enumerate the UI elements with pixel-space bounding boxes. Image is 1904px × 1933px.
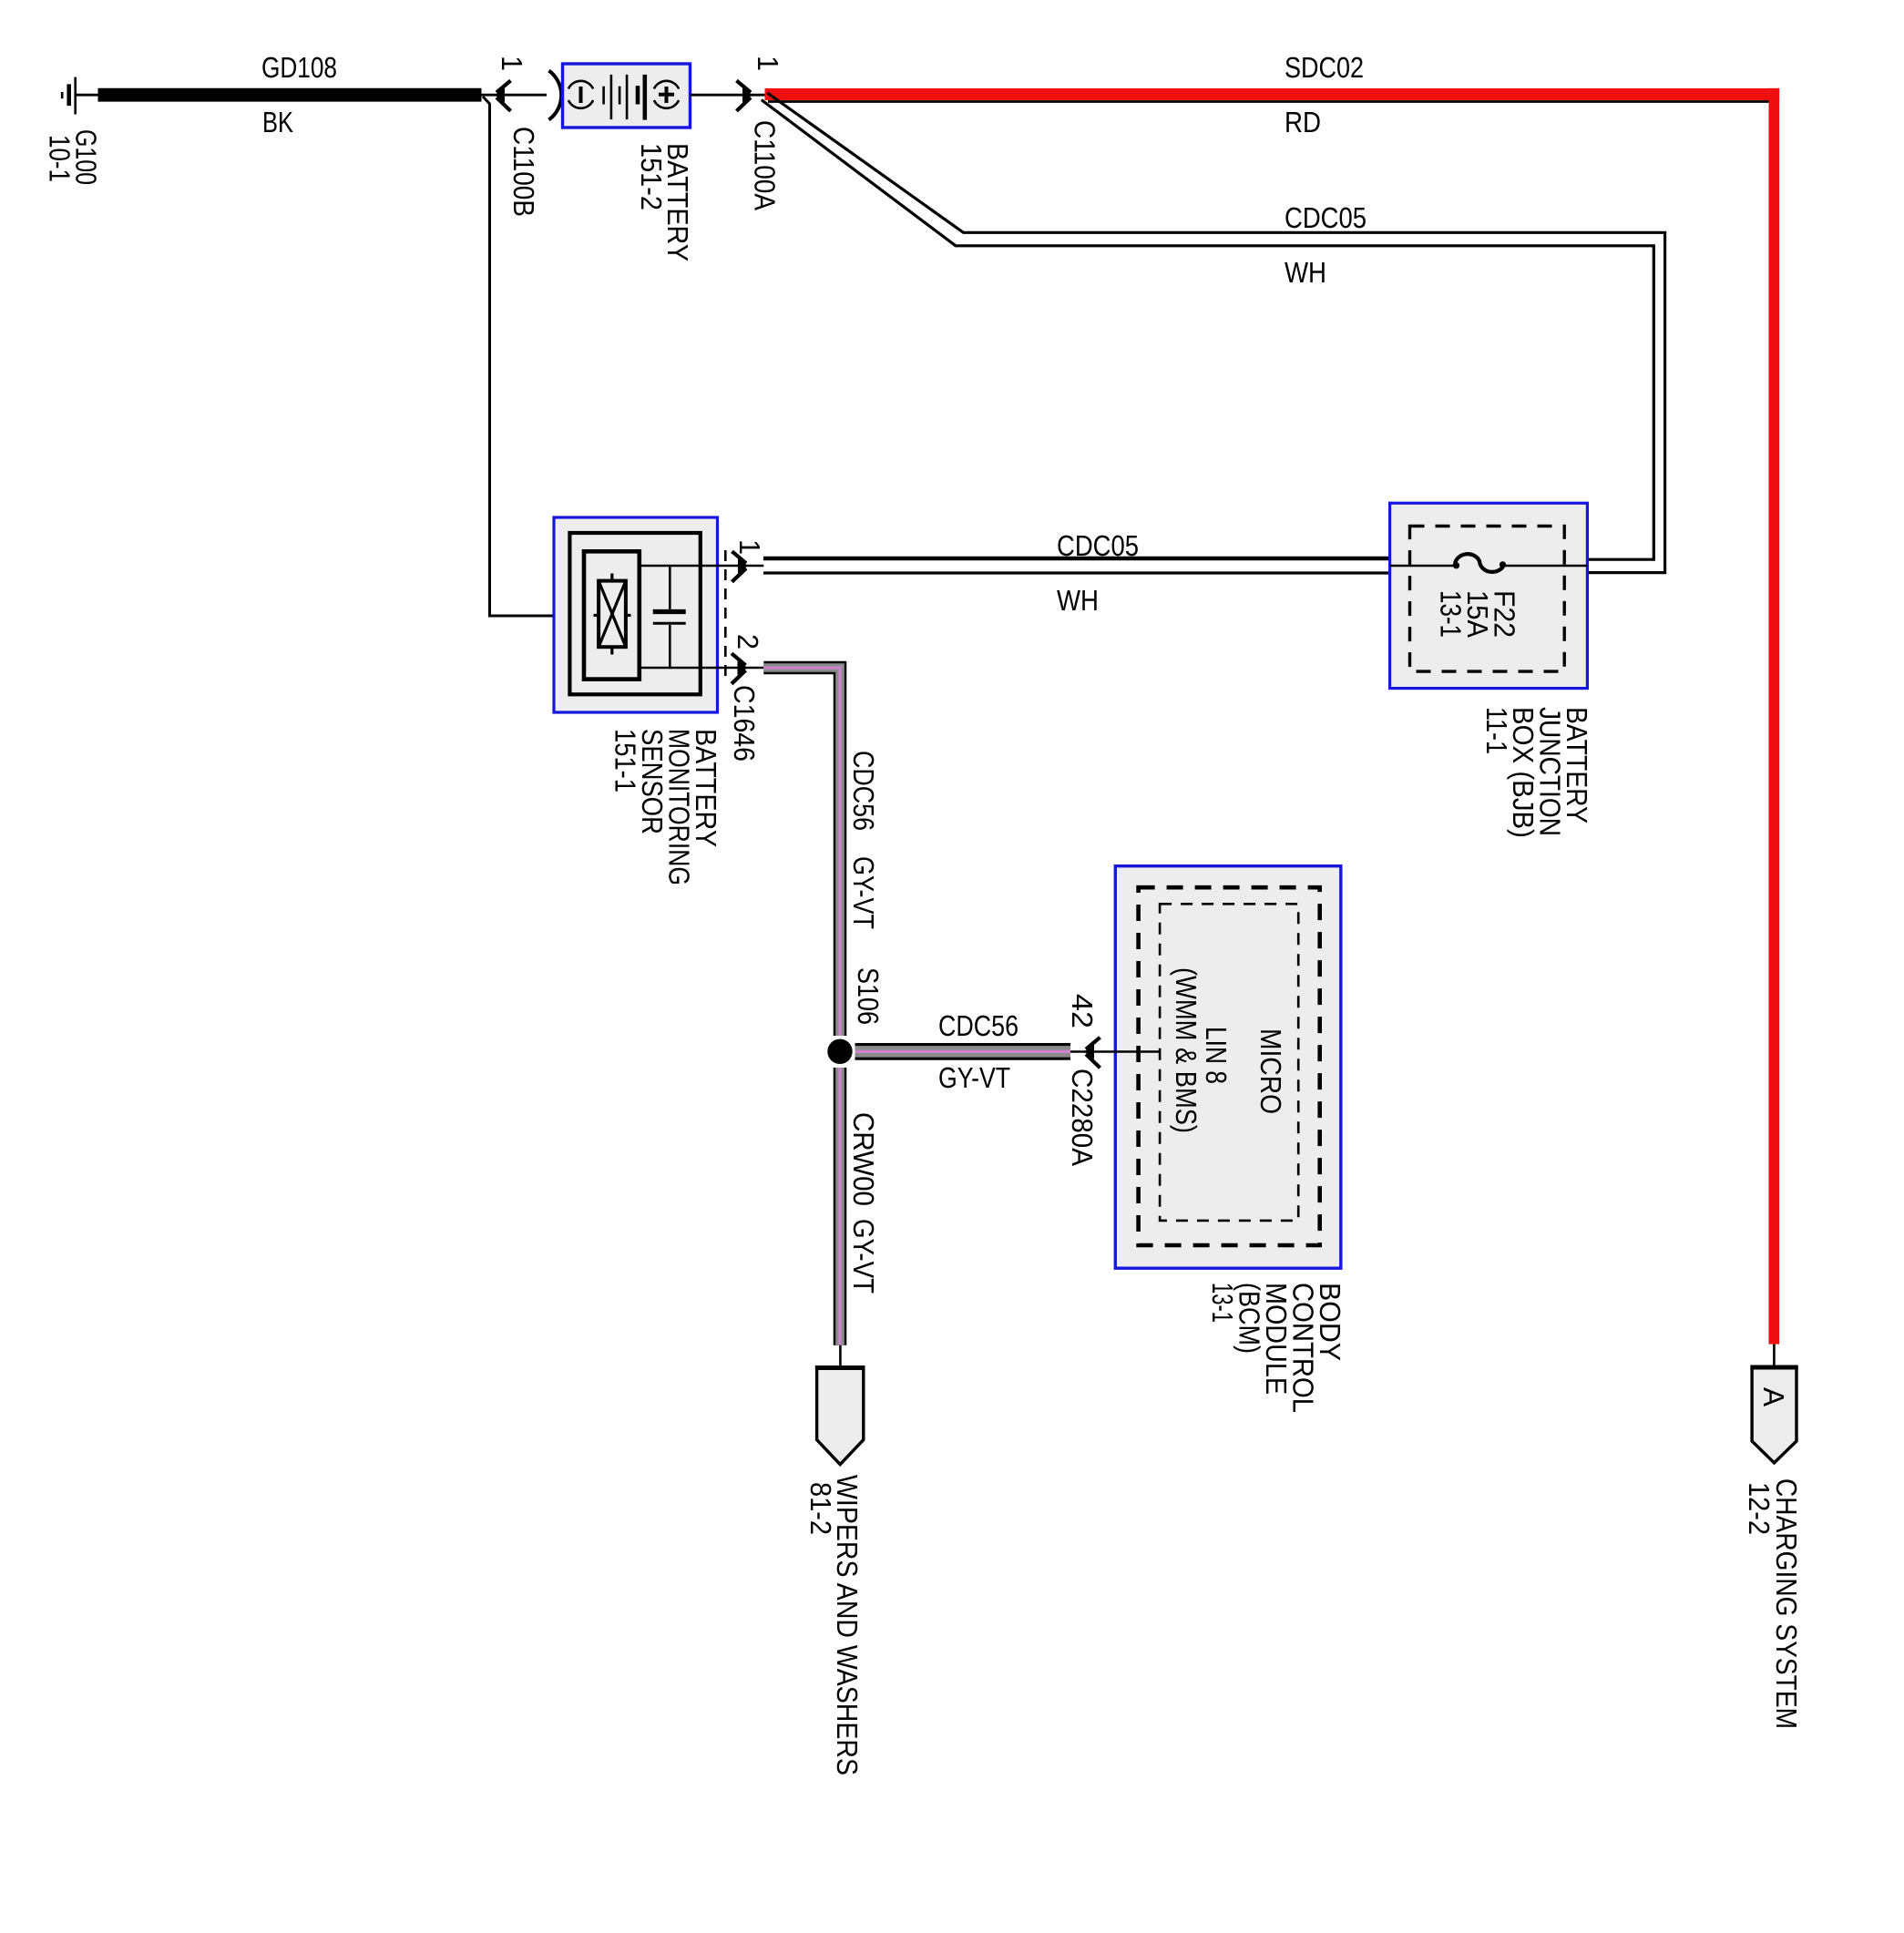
svg-text:81-2: 81-2 — [804, 1482, 837, 1535]
lead to charging system connector — [1773, 1345, 1776, 1368]
wire CRW00 GY-VT from S106 down to wipers — [834, 1068, 847, 1345]
svg-text:WH: WH — [1285, 256, 1326, 289]
wire pin42 lead — [1070, 1050, 1160, 1053]
svg-text:42: 42 — [1066, 994, 1099, 1028]
battery monitoring sensor box — [554, 517, 718, 712]
wire CDC56 GY-VT from BMS pin2 (horizontal then down) — [763, 668, 840, 1036]
wire drop from C1100B down to battery monitoring sensor — [483, 97, 554, 616]
svg-text:CDC56: CDC56 — [938, 1009, 1019, 1042]
BCM outer dashed box (thick) — [1139, 887, 1320, 1245]
wire GD108 BK (thick black) — [98, 88, 482, 102]
connector arrow C1100B (points left) — [495, 81, 511, 111]
svg-text:GD108: GD108 — [261, 51, 337, 84]
BMS inner rect — [569, 533, 700, 694]
svg-text:GY-VT: GY-VT — [847, 856, 880, 929]
svg-text:MICRO: MICRO — [1254, 1028, 1287, 1114]
svg-text:151-2: 151-2 — [635, 143, 668, 210]
svg-text:1: 1 — [733, 539, 766, 555]
wire CDC05 WH double-line: diagonal+top run+right verticals into BJB — [762, 93, 1665, 573]
off-page connector A (charging system) — [1752, 1367, 1797, 1463]
svg-text:13-1: 13-1 — [1435, 590, 1468, 638]
BMS pin1 arrow (points right) — [732, 551, 749, 581]
svg-text:1: 1 — [752, 56, 784, 71]
svg-text:2: 2 — [732, 634, 764, 649]
svg-text:CDC05: CDC05 — [1285, 201, 1367, 234]
svg-text:C1100B: C1100B — [507, 127, 540, 217]
svg-text:A: A — [1757, 1387, 1790, 1407]
svg-text:GY-VT: GY-VT — [847, 1219, 880, 1294]
svg-text:GY-VT: GY-VT — [938, 1061, 1010, 1094]
BMS pin1 internal wire — [640, 565, 764, 568]
svg-text:BK: BK — [262, 106, 293, 138]
body control module BCM box — [1115, 866, 1341, 1268]
battery cells — [604, 75, 645, 120]
BCM pin42 arrow (points left) — [1084, 1038, 1100, 1068]
svg-text:CRW00: CRW00 — [847, 1112, 880, 1206]
battery female connector arc — [549, 71, 562, 120]
wire thin from BK wire to battery — [482, 94, 548, 97]
wire battery to C1100A — [691, 94, 765, 97]
black underline of red wire — [768, 100, 1769, 103]
svg-text:S106: S106 — [852, 967, 885, 1025]
battery junction box BJB — [1390, 503, 1588, 688]
BMS shunt X box — [599, 581, 626, 648]
BCM inner dashed box (thin) — [1160, 904, 1298, 1221]
svg-text:C1646: C1646 — [728, 685, 761, 762]
battery (+) terminal symbol — [654, 81, 679, 108]
svg-text:151-1: 151-1 — [609, 729, 642, 793]
ground G100 — [62, 77, 98, 115]
wire CDC05 WH double-line from BMS pin 1 to BJB — [763, 557, 1390, 560]
fuse F22 line — [1390, 565, 1455, 568]
svg-text:11-1: 11-1 — [1480, 707, 1513, 754]
svg-text:12-2: 12-2 — [1743, 1482, 1776, 1535]
splice S106 — [827, 1039, 852, 1064]
off-page connector WIPERS AND WASHERS — [817, 1368, 864, 1465]
BMS shunt ticks — [610, 574, 613, 581]
fuse F22 S-curve — [1455, 554, 1504, 572]
svg-text:CDC05: CDC05 — [1057, 529, 1139, 562]
BMS shunt outer rect — [584, 551, 640, 679]
wire SDC02 RD (red, vertical right) — [1769, 88, 1780, 1345]
connector C1646 dashed line — [724, 550, 727, 681]
BJB inner dashed box — [1410, 527, 1565, 672]
svg-text:C2280A: C2280A — [1066, 1069, 1099, 1167]
wire SDC02 RD (red, horizontal) — [765, 88, 1780, 100]
connector arrow C1100A (points right) — [737, 81, 753, 111]
svg-text:13-1: 13-1 — [1206, 1283, 1239, 1323]
battery B1 box — [563, 64, 691, 128]
lead to wipers connector — [839, 1345, 842, 1368]
BMS pin2 internal wire — [640, 667, 764, 670]
svg-text:LIN 8: LIN 8 — [1200, 1027, 1233, 1084]
battery (-) terminal symbol — [568, 81, 593, 108]
svg-text:CDC56: CDC56 — [847, 751, 880, 831]
svg-text:(WMM & BMS): (WMM & BMS) — [1170, 967, 1203, 1133]
wire CDC56 GY-VT branch to BCM — [855, 1043, 1071, 1060]
capacitor inside BMS — [653, 566, 686, 668]
BMS pin2 arrow (points right) — [732, 653, 748, 683]
svg-text:RD: RD — [1285, 106, 1321, 138]
svg-text:SDC02: SDC02 — [1285, 51, 1364, 84]
svg-text:C1100A: C1100A — [749, 120, 782, 211]
svg-text:1: 1 — [496, 56, 528, 71]
svg-text:10-1: 10-1 — [44, 135, 77, 182]
svg-text:WH: WH — [1057, 584, 1099, 617]
